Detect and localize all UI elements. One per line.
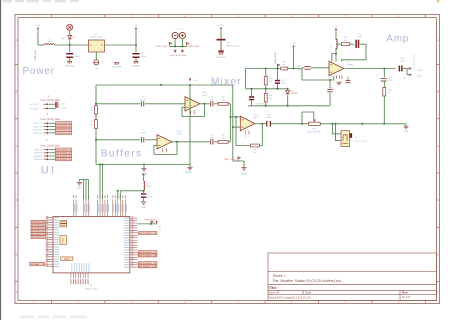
connector J6 pin 4 bbox=[44, 132, 47, 134]
wire bias left leg bbox=[245, 69, 247, 89]
battery BT1 bbox=[217, 39, 226, 41]
svg-text:100uF: 100uF bbox=[74, 56, 80, 58]
frame row division ticks bbox=[15, 38, 440, 295]
svg-text:D: D bbox=[16, 198, 18, 202]
junction flag row right bbox=[181, 45, 183, 47]
svg-text:PWR: PWR bbox=[64, 258, 70, 261]
svg-text:ALPS_RK09K: ALPS_RK09K bbox=[308, 130, 321, 133]
connector J6 pin 1 bbox=[44, 122, 47, 124]
junction U3A output bbox=[204, 103, 206, 105]
wire bias top rail bbox=[246, 68, 281, 70]
svg-text:LDR BTN: LDR BTN bbox=[34, 153, 43, 155]
wire U3B feedback bbox=[154, 142, 177, 155]
svg-text:GND: GND bbox=[141, 207, 146, 209]
wire U3B output bbox=[172, 141, 210, 143]
net label MICROMOD_P2 bbox=[138, 254, 157, 257]
wire J7 pin 2 bbox=[49, 152, 56, 154]
svg-text:SPK+: SPK+ bbox=[417, 70, 423, 72]
svg-text:Mixer: Mixer bbox=[211, 76, 242, 87]
ground GND amp rail bbox=[403, 125, 408, 127]
mcu U1 body bbox=[53, 217, 130, 273]
svg-text:4: 4 bbox=[249, 136, 250, 138]
capacitor C10 10uF bbox=[266, 121, 267, 127]
junction 3v3 flag bbox=[150, 223, 152, 225]
resistor R7 10k bbox=[218, 102, 228, 105]
capacitor C12 47uF bbox=[275, 80, 280, 82]
junction flag row left bbox=[174, 45, 176, 47]
wire mcu 3v3 bbox=[137, 223, 156, 225]
node +5V mcu filter bbox=[143, 174, 145, 177]
wire feedback return bbox=[236, 117, 251, 146]
junction bottom rail D5 bbox=[287, 105, 289, 107]
capacitor C18 at J5 bbox=[55, 102, 56, 108]
wire mcu net stub 1 bbox=[137, 232, 138, 234]
net label MICROMOD_P1 bbox=[138, 251, 157, 254]
net label UI_IN3 bbox=[31, 226, 45, 229]
wire J7 pin 1 bbox=[49, 149, 56, 151]
capacitor C13 2.2uF bbox=[399, 66, 401, 72]
flag PWR_FLAG left bbox=[169, 42, 171, 46]
resistor R11 10k bbox=[264, 93, 267, 102]
wire bias bottom rail bbox=[248, 105, 330, 107]
junction U4 output bbox=[261, 123, 263, 125]
wire +9V to L3 bbox=[335, 32, 337, 40]
svg-text:C: C bbox=[437, 144, 439, 148]
svg-text:J4: J4 bbox=[404, 78, 406, 80]
svg-text:C: C bbox=[16, 144, 18, 148]
op-amp U3A TL072 bbox=[185, 97, 200, 111]
wire J6 pin 3 bbox=[49, 129, 56, 131]
svg-text:+5V: +5V bbox=[292, 43, 296, 45]
svg-text:THP BTN: THP BTN bbox=[34, 150, 43, 152]
mcu internal power block bbox=[60, 236, 67, 245]
node +BATT bbox=[220, 28, 222, 30]
wire +5V rail drop bbox=[135, 31, 137, 53]
svg-text:Conn_01x02_Male: Conn_01x02_Male bbox=[169, 55, 187, 57]
pin GND of U2 bbox=[95, 52, 97, 60]
wire C1 to ground bbox=[69, 58, 71, 61]
wire mcu net stub 3 bbox=[137, 255, 138, 257]
wire C9 bottom stub bbox=[251, 100, 253, 106]
junction L2 out bbox=[143, 190, 145, 192]
connector J3 headphone jack bbox=[341, 131, 350, 147]
junction bus at +9V flag bbox=[189, 84, 191, 86]
mcu internal crystal block 2 bbox=[60, 224, 67, 227]
svg-text:100nF: 100nF bbox=[140, 133, 146, 135]
wire C3 to ground bbox=[143, 198, 145, 201]
net label MICROMOD_D3 bbox=[56, 158, 72, 161]
svg-text:D2: D2 bbox=[73, 37, 75, 39]
connector J6 pin 2 bbox=[44, 126, 47, 128]
svg-text:Sheet: /: Sheet: / bbox=[273, 274, 285, 278]
junction jack tip bbox=[331, 123, 333, 125]
svg-text:TL072: TL072 bbox=[177, 134, 184, 136]
svg-text:MICROMOD_D10: MICROMOD_D10 bbox=[139, 266, 157, 268]
inductor L2 10uH bbox=[144, 181, 145, 190]
junction +5V rail bbox=[135, 44, 137, 46]
svg-text:MICROMOD_D5: MICROMOD_D5 bbox=[56, 159, 71, 161]
svg-text:B: B bbox=[16, 90, 18, 94]
svg-text:PWR_FLAG: PWR_FLAG bbox=[188, 45, 199, 48]
svg-text:HUM BTN: HUM BTN bbox=[33, 156, 43, 158]
junction jack ring bbox=[335, 123, 337, 125]
svg-text:+BATT: +BATT bbox=[218, 24, 225, 27]
net label MICROMOD_D0 bbox=[56, 148, 72, 151]
connector J1 pin 2 bbox=[181, 49, 183, 51]
junction D5 top bbox=[287, 88, 289, 90]
svg-text:10k: 10k bbox=[90, 110, 93, 112]
wire J7 pin 3 bbox=[49, 155, 56, 157]
junction ground run bbox=[143, 164, 145, 166]
mcu internal crystal block 1 bbox=[60, 220, 67, 223]
wire U5 output bbox=[345, 68, 396, 70]
screen artifact top-left smudge bbox=[2, 0, 79, 2]
svg-text:PWR: PWR bbox=[63, 237, 65, 242]
junction bus at C6 branch bbox=[160, 84, 162, 86]
svg-text:GND: GND bbox=[77, 188, 82, 190]
svg-text:Date:: Date: bbox=[305, 291, 312, 295]
net label MICROMOD_P0 bbox=[138, 232, 157, 235]
junction mid rail C12 bbox=[277, 88, 279, 90]
svg-text:GNDPWR: GNDPWR bbox=[112, 67, 122, 69]
wire C12 top stub bbox=[277, 69, 279, 80]
wire node to C1 bbox=[69, 45, 71, 52]
net label MICROMOD_D2 bbox=[56, 154, 72, 157]
svg-text:LM386: LM386 bbox=[347, 65, 354, 67]
wire to L1 bbox=[38, 44, 45, 46]
pins power U3B bbox=[162, 148, 164, 152]
wire C6 to U3A input bbox=[145, 103, 185, 105]
wire C2 to ground bbox=[135, 58, 137, 61]
svg-text:GNDPWR: GNDPWR bbox=[131, 66, 141, 68]
wire LED to D2 bbox=[69, 30, 71, 35]
wire R14 to C15 bbox=[350, 43, 354, 45]
junction U4 +input bbox=[232, 126, 234, 128]
svg-text:A: A bbox=[437, 38, 439, 42]
junction gnd run tap2 bbox=[102, 164, 104, 166]
svg-text:SERIAL_TX: SERIAL_TX bbox=[31, 263, 45, 266]
svg-text:TL072: TL072 bbox=[202, 95, 209, 97]
wire D5 bottom stub bbox=[287, 95, 289, 106]
ground GND mcu top bbox=[77, 182, 82, 184]
svg-text:YEL POT: YEL POT bbox=[34, 123, 43, 125]
capacitor C7 100nF bbox=[141, 137, 144, 142]
wire C7 to U3B input bbox=[145, 139, 157, 141]
resistor R8 10k bbox=[218, 140, 228, 143]
connector J4 speaker pin 2 bbox=[407, 74, 410, 76]
mcu U1 left pins bbox=[46, 216, 60, 267]
svg-text:PWR_FLAG: PWR_FLAG bbox=[274, 52, 277, 63]
wire J5 pin2 bbox=[49, 107, 56, 109]
wire C9 top stub bbox=[251, 89, 253, 96]
pins power U4 bbox=[245, 131, 247, 135]
wire U5 gain pin 8 bbox=[342, 44, 367, 61]
svg-text:C9 47uF: C9 47uF bbox=[256, 104, 264, 106]
wire battery top bbox=[220, 30, 222, 39]
net label MICROMOD_P4 bbox=[138, 265, 157, 268]
svg-text:4.7uF: 4.7uF bbox=[388, 80, 394, 82]
node +5V mixer bbox=[293, 46, 295, 49]
svg-text:File: Weather Station 09 (TL07: File: Weather Station 09 (TL07x buffers)… bbox=[273, 279, 342, 283]
svg-text:10k: 10k bbox=[253, 152, 256, 154]
svg-text:U3B: U3B bbox=[177, 131, 182, 133]
power symbol 0V at U2 GND bbox=[94, 60, 99, 65]
potentiometer RV1 bbox=[309, 122, 321, 125]
net label UI_IN2 bbox=[31, 223, 45, 226]
svg-text:TL072: TL072 bbox=[253, 117, 260, 119]
op-amp U4 TL072 bbox=[240, 116, 255, 131]
svg-text:D1: D1 bbox=[63, 37, 65, 39]
wire mcu net stub 4 bbox=[137, 262, 138, 264]
svg-text:10k: 10k bbox=[269, 81, 272, 83]
capacitor C6 100nF bbox=[141, 101, 144, 106]
svg-text:100nF: 100nF bbox=[295, 66, 301, 68]
ground GND mcu filter bbox=[141, 201, 146, 203]
svg-text:PWR_FLAG: PWR_FLAG bbox=[224, 158, 235, 161]
capacitor C2 100uF bbox=[133, 53, 140, 55]
wire R15 to ground rail bbox=[383, 96, 385, 124]
wire +5V to L2 bbox=[143, 177, 145, 181]
junction volume feed bbox=[301, 123, 303, 125]
inductor L1 bbox=[45, 44, 55, 45]
wire C16 left stub bbox=[302, 67, 305, 69]
node +9V amp bbox=[335, 29, 337, 32]
svg-text:10uH: 10uH bbox=[48, 41, 53, 43]
capacitor C1 100uF bbox=[66, 53, 73, 55]
svg-text:MICROMOD_A3: MICROMOD_A3 bbox=[56, 132, 71, 135]
LED D1 bbox=[67, 24, 73, 30]
capacitor C3 100nF bbox=[141, 193, 146, 194]
title block frame bbox=[268, 253, 437, 301]
resistor R12 47k bbox=[281, 67, 288, 70]
svg-text:10k: 10k bbox=[298, 69, 301, 71]
mcu U1 top pins bbox=[73, 195, 127, 216]
svg-text:MICROMOD_A5: MICROMOD_A5 bbox=[32, 236, 45, 239]
svg-text:10k: 10k bbox=[269, 98, 272, 100]
svg-text:SPK-: SPK- bbox=[417, 76, 422, 78]
svg-text:1N4148: 1N4148 bbox=[291, 93, 298, 95]
capacitor C17 bypass bbox=[346, 80, 351, 83]
wire bias end vertical bbox=[301, 69, 303, 81]
wire jack ring feed bbox=[336, 124, 339, 141]
ground GNDPWR near U2 bbox=[114, 62, 119, 64]
svg-text:100uF: 100uF bbox=[140, 56, 146, 58]
svg-text:GNDA: GNDA bbox=[185, 171, 191, 174]
svg-text:10uF: 10uF bbox=[266, 117, 271, 119]
junction mid rail C9 bbox=[251, 88, 253, 90]
junction at D1 branch bbox=[69, 44, 71, 46]
connector J5 pin 2 bbox=[44, 107, 47, 109]
wire L2 to mcu vcc pins bbox=[120, 190, 143, 192]
inductor L3 bbox=[336, 39, 337, 49]
svg-text:PWR_FLAG: PWR_FLAG bbox=[156, 45, 167, 48]
wire bus to U4 noninverting bbox=[232, 85, 234, 161]
power flag circle plus bbox=[179, 32, 185, 38]
wire R11 top stub bbox=[265, 89, 267, 94]
net label MICROMOD_A2 bbox=[56, 128, 72, 131]
svg-text:GNDA: GNDA bbox=[241, 172, 247, 175]
flag PWR_FLAG bias bbox=[277, 64, 279, 69]
wire J6 pin 2 bbox=[49, 126, 56, 128]
wire zobel drop bbox=[383, 69, 385, 78]
wire mixer output to volume bbox=[271, 123, 309, 125]
node +9V on bus bbox=[189, 79, 191, 82]
connector J1 pin 1 bbox=[174, 49, 176, 51]
ground GNDA under mixer bbox=[241, 167, 246, 169]
svg-text:U3A: U3A bbox=[203, 91, 208, 94]
junction +5V feed bbox=[293, 68, 295, 70]
wire U3A output bbox=[200, 103, 210, 105]
junction mid rail R11 bbox=[265, 88, 267, 90]
resistor R14 47k bbox=[341, 43, 349, 46]
screen edge artifact left bbox=[0, 0, 1, 320]
ground under U5 bbox=[336, 81, 341, 83]
wire bias mid rail bbox=[246, 88, 288, 90]
wire to U4 inverting input bbox=[230, 116, 240, 118]
wire +9V bus bbox=[96, 84, 233, 86]
wire C8 to R7 bbox=[214, 103, 218, 105]
junction zobel tap bbox=[383, 68, 385, 70]
wire C16 to U5 input bbox=[311, 67, 329, 69]
connector J5 pin 1 bbox=[44, 103, 47, 105]
junction divider tap 2 bbox=[95, 139, 97, 141]
wire R12 to +5V node bbox=[288, 68, 302, 70]
svg-text:+5V: +5V bbox=[134, 25, 138, 27]
connector J4 speaker pin 1 bbox=[407, 68, 410, 70]
wire D2 to node bbox=[69, 41, 71, 46]
wire D5 top stub bbox=[287, 89, 289, 90]
svg-text:+9V: +9V bbox=[334, 26, 338, 28]
connector J7 pin 3 bbox=[44, 155, 47, 157]
svg-text:10k: 10k bbox=[90, 124, 93, 126]
svg-text:47uF: 47uF bbox=[282, 83, 287, 85]
wire J7 pin 4 bbox=[49, 158, 56, 160]
net label SERIAL_TX bbox=[30, 262, 45, 265]
node +3.3V mcu bbox=[156, 222, 158, 225]
junction C12 top bbox=[277, 68, 279, 70]
svg-text:100nF: 100nF bbox=[147, 196, 153, 198]
svg-text:UI: UI bbox=[41, 164, 57, 176]
svg-text:arduino_mini: arduino_mini bbox=[85, 288, 98, 291]
wire mcu net stub 5 bbox=[137, 265, 138, 267]
svg-text:E: E bbox=[16, 252, 18, 256]
ground GNDA right bbox=[187, 166, 192, 168]
svg-text:10k: 10k bbox=[222, 99, 225, 101]
svg-text:+9V/+5V: +9V/+5V bbox=[175, 29, 184, 31]
svg-text:5V +3.3V: 5V +3.3V bbox=[30, 104, 39, 106]
wire amp ground rail bbox=[320, 123, 406, 125]
wire U5 gain pin 1 bbox=[332, 54, 336, 62]
wire jack tip feed bbox=[332, 124, 338, 134]
wire summing vertical bbox=[229, 104, 231, 142]
wire bus to ground run bbox=[189, 85, 191, 165]
resistor R15 10 bbox=[383, 87, 386, 96]
wire divider chain bbox=[95, 85, 97, 165]
capacitor C8 1uF bbox=[210, 101, 213, 106]
svg-text:2.2uF: 2.2uF bbox=[400, 61, 406, 63]
svg-text:L78L05_TO92: L78L05_TO92 bbox=[90, 37, 104, 39]
power flag circle minus bbox=[172, 32, 178, 38]
svg-text:Size: A4: Size: A4 bbox=[269, 291, 280, 295]
svg-text:10k: 10k bbox=[222, 137, 225, 139]
diode D5 1N4148 bbox=[286, 90, 290, 93]
svg-text:5V GND: 5V GND bbox=[31, 108, 39, 110]
wire C14 to R15 bbox=[383, 80, 385, 87]
svg-text:Conn_01x04_Male: Conn_01x04_Male bbox=[40, 119, 60, 121]
svg-text:KiCad E.D.A. kicad (5.1.5-0-1: KiCad E.D.A. kicad (5.1.5-0-10_14) bbox=[269, 295, 311, 299]
svg-text:Power: Power bbox=[23, 66, 55, 77]
wire serial stub bbox=[44, 263, 47, 265]
junction vcc pins bbox=[117, 190, 119, 192]
flag PWR_FLAG analog bbox=[237, 157, 239, 161]
wire U4 feedback bbox=[260, 124, 263, 146]
svg-text:GNDPWR: GNDPWR bbox=[216, 57, 226, 59]
connector J7 pin 4 bbox=[44, 158, 47, 160]
svg-text:Conn_01x02_Male: Conn_01x02_Male bbox=[40, 100, 60, 102]
ground GNDPWR under C1 bbox=[67, 60, 72, 62]
mcu U1 bottom pins bbox=[70, 263, 89, 284]
wire C5 to R8 bbox=[214, 141, 218, 143]
node +9V input bbox=[37, 28, 39, 31]
capacitor C15 10uF bbox=[355, 40, 357, 48]
wire U3A feedback bbox=[182, 104, 205, 117]
wire volume return vertical bbox=[301, 112, 303, 124]
net label UI_IN4 bbox=[31, 229, 45, 232]
wire J6 pin 1 bbox=[49, 122, 56, 124]
net label MICROMOD_P3 bbox=[138, 262, 157, 265]
svg-text:RED POT: RED POT bbox=[34, 130, 44, 132]
wire C11 to ground rail bbox=[329, 93, 331, 106]
wire C13 to speaker bbox=[403, 68, 407, 70]
junction rail zobel bbox=[383, 123, 385, 125]
svg-text:AUDIO_JACK: AUDIO_JACK bbox=[355, 140, 368, 143]
wire to GNDA bbox=[233, 160, 244, 162]
wire analog ground run bbox=[96, 164, 190, 166]
wire L2 to C3 bbox=[143, 190, 145, 193]
net label MICROMOD_A1 bbox=[56, 125, 72, 128]
ground GNDPWR under C2 bbox=[133, 60, 138, 62]
regulator U2 L78L05 bbox=[89, 40, 105, 52]
wire R7 to summing node bbox=[228, 103, 230, 105]
node +5V bbox=[135, 28, 137, 31]
svg-text:D: D bbox=[437, 198, 439, 202]
svg-text:+9V: +9V bbox=[36, 25, 40, 27]
wire mcu gnd cluster bbox=[79, 180, 83, 200]
wire tap1 to C6 bbox=[96, 103, 140, 105]
svg-text:MICROMOD_D6: MICROMOD_D6 bbox=[139, 233, 157, 235]
wire mcu analog gnd taps bbox=[99, 165, 101, 200]
junction divider tap 1 bbox=[95, 103, 97, 105]
wire C11 drop bbox=[329, 80, 331, 88]
resistor R3 10k bbox=[95, 106, 98, 115]
svg-text:GNDPWR: GNDPWR bbox=[65, 66, 75, 68]
svg-text:PWR_FLAG: PWR_FLAG bbox=[144, 218, 155, 221]
junction gnd run tap1 bbox=[99, 164, 101, 166]
wire C12 bottom stub bbox=[277, 84, 279, 89]
capacitor C16 100nF bbox=[305, 66, 311, 68]
svg-text:10uF: 10uF bbox=[357, 36, 362, 38]
svg-text:Conn_01x04_Male: Conn_01x04_Male bbox=[40, 146, 60, 148]
svg-text:10uH: 10uH bbox=[147, 186, 152, 188]
wire R10 top stub bbox=[265, 69, 267, 77]
ground GNDPWR under BT1 bbox=[218, 52, 223, 54]
flag PWR_FLAG right bbox=[186, 42, 188, 46]
junction C11 tap bbox=[329, 79, 331, 81]
svg-text:D5: D5 bbox=[291, 90, 293, 92]
wire U5 lower input run bbox=[302, 77, 334, 81]
resistor R10 10k bbox=[264, 76, 267, 85]
svg-text:47k: 47k bbox=[282, 64, 285, 66]
